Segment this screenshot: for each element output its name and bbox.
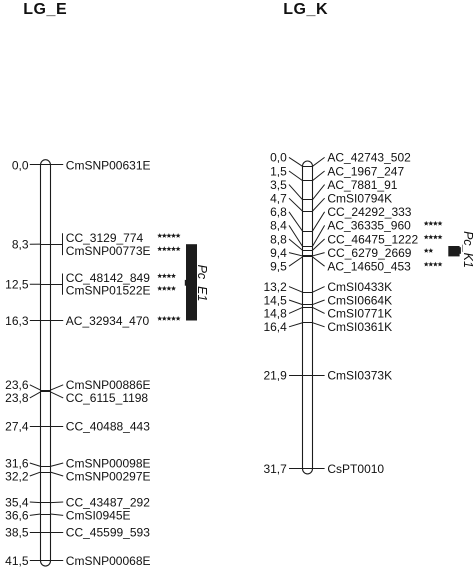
svg-text:23,6: 23,6 xyxy=(5,378,29,392)
svg-text:CmSI0373K: CmSI0373K xyxy=(327,369,392,383)
svg-text:0,0: 0,0 xyxy=(12,158,29,172)
svg-text:31,6: 31,6 xyxy=(5,456,29,470)
LG_E marker connector stem at 8,3 xyxy=(51,244,63,246)
svg-text:CmSI0945E: CmSI0945E xyxy=(66,509,131,523)
LG_K distance connector 14,8 xyxy=(289,307,303,313)
LG_K marker connector AC_1967_247 xyxy=(313,171,325,181)
LG_E distance connector 35,4 xyxy=(30,501,41,504)
LG_E marker connector CmSI0945E xyxy=(51,514,64,515)
LG_E distance connector 0,0 xyxy=(30,164,41,166)
LG_K marker connector AC_7881_91 xyxy=(313,185,325,200)
LG_E tick at 27,4 cM xyxy=(41,426,51,428)
LG_K tick at 1,5 cM xyxy=(303,180,313,182)
svg-text:0,0: 0,0 xyxy=(270,151,287,165)
significance stars CmSNP00773E (5) xyxy=(157,246,180,251)
svg-text:CmSNP00098E: CmSNP00098E xyxy=(66,456,151,470)
significance stars CC_46475_1222 (4) xyxy=(424,235,443,240)
LG_E distance connector 16,3 xyxy=(30,320,41,322)
LG_K tick at 9,5 cM xyxy=(303,256,313,258)
svg-text:27,4: 27,4 xyxy=(5,420,29,434)
svg-text:CC_6115_1198: CC_6115_1198 xyxy=(66,391,149,405)
chromosome bar LG_K xyxy=(303,161,313,474)
LG_E distance connector 36,6 xyxy=(30,514,41,515)
significance stars CC_3129_774 (5) xyxy=(157,233,180,238)
svg-text:CmSI0433K: CmSI0433K xyxy=(327,280,392,294)
LG_E distance connector 41,5 xyxy=(30,560,41,562)
svg-text:CC_3129_774: CC_3129_774 xyxy=(66,231,144,245)
LG_E distance connector 38,5 xyxy=(30,532,41,534)
svg-text:8,3: 8,3 xyxy=(12,238,29,252)
LG_E distance connector 32,2 xyxy=(30,472,41,476)
LG_E marker connector stem at 12,5 xyxy=(51,284,63,286)
svg-text:CsPT0010: CsPT0010 xyxy=(327,462,384,476)
svg-text:CC_43487_292: CC_43487_292 xyxy=(66,495,150,509)
svg-text:Pc_E1: Pc_E1 xyxy=(195,265,209,302)
LG_E marker connector CmSNP00098E xyxy=(51,463,64,466)
LG_E distance connector 27,4 xyxy=(30,426,41,428)
svg-text:CmSNP00068E: CmSNP00068E xyxy=(66,554,151,568)
svg-text:13,2: 13,2 xyxy=(263,280,287,294)
significance stars CC_48142_849 (4) xyxy=(157,273,176,278)
LG_K distance connector 8,4 xyxy=(289,225,303,246)
svg-text:CC_40488_443: CC_40488_443 xyxy=(66,420,150,434)
svg-text:9,4: 9,4 xyxy=(270,246,287,260)
LG_K marker connector CC_6279_2669 xyxy=(313,253,325,256)
LG_E tick at 16,3 cM xyxy=(41,320,51,322)
svg-text:9,5: 9,5 xyxy=(270,260,287,274)
LG_E marker connector CmSNP00297E xyxy=(51,472,64,476)
svg-text:16,4: 16,4 xyxy=(263,320,287,334)
svg-text:31,7: 31,7 xyxy=(263,462,287,476)
svg-text:CmSNP00773E: CmSNP00773E xyxy=(66,244,151,258)
svg-text:23,8: 23,8 xyxy=(5,391,29,405)
LG_E distance connector 31,6 xyxy=(30,463,41,466)
svg-text:12,5: 12,5 xyxy=(5,278,29,292)
LG_E marker connector CmSNP00886E xyxy=(51,385,64,390)
LG_K tick at 21,9 cM xyxy=(303,375,313,377)
LG_K distance connector 1,5 xyxy=(289,171,303,181)
LG_E marker connector CC_43487_292 xyxy=(51,501,64,504)
LG_K distance connector 14,5 xyxy=(289,300,303,305)
LG_K distance connector 9,5 xyxy=(289,257,303,266)
svg-text:AC_7881_91: AC_7881_91 xyxy=(327,178,397,192)
LG_E distance connector 23,8 xyxy=(30,392,41,398)
LG_E marker connector AC_32934_470 xyxy=(51,320,64,322)
svg-text:1,5: 1,5 xyxy=(270,164,287,178)
LG_E tick at 32,2 cM xyxy=(41,472,51,474)
QTL whisker Pc_K1 xyxy=(459,247,461,254)
LG_K tick at 9,4 cM xyxy=(303,255,313,257)
svg-text:21,9: 21,9 xyxy=(263,369,287,383)
LG_E tick at 35,4 cM xyxy=(41,502,51,504)
svg-text:CC_6279_2669: CC_6279_2669 xyxy=(327,246,411,260)
LG_E tick at 38,5 cM xyxy=(41,532,51,534)
LG_E marker connector CC_45599_593 xyxy=(51,532,64,534)
LG_K marker connector CmSI0361K xyxy=(313,323,325,327)
LG_E marker connector CmSNP00068E xyxy=(51,560,64,562)
svg-text:CC_45599_593: CC_45599_593 xyxy=(66,526,150,540)
svg-text:LG_E: LG_E xyxy=(23,1,67,18)
svg-text:35,4: 35,4 xyxy=(5,495,29,509)
svg-text:8,4: 8,4 xyxy=(270,219,287,233)
svg-text:CmSNP00631E: CmSNP00631E xyxy=(66,158,151,172)
LG_E tick at 31,6 cM xyxy=(41,466,51,468)
LG_K distance connector 4,7 xyxy=(289,198,303,211)
LG_E marker connector CmSNP00631E xyxy=(51,164,64,166)
LG_K marker connector CmSI0771K xyxy=(313,307,325,313)
svg-text:6,8: 6,8 xyxy=(270,205,287,219)
svg-text:CmSI0664K: CmSI0664K xyxy=(327,293,392,307)
LG_K marker connector CC_46475_1222 xyxy=(313,239,325,250)
LG_K tick at 14,8 cM xyxy=(303,307,313,309)
significance stars AC_32934_470 (5) xyxy=(157,316,180,321)
LG_K tick at 8,4 cM xyxy=(303,246,313,248)
LG_E distance connector 23,6 xyxy=(30,385,41,390)
LG_E tick at 0,0 cM xyxy=(41,164,51,166)
LG_E tick at 12,5 cM xyxy=(41,284,51,286)
LG_K distance connector 13,2 xyxy=(289,287,303,293)
svg-text:CC_24292_333: CC_24292_333 xyxy=(327,205,411,219)
LG_K marker connector AC_42743_502 xyxy=(313,157,325,166)
significance stars CmSNP01522E (4) xyxy=(157,286,176,291)
LG_K distance connector 9,4 xyxy=(289,253,303,256)
LG_E tick at 23,6 cM xyxy=(41,390,51,392)
svg-text:Pc_K1: Pc_K1 xyxy=(461,231,474,268)
LG_K tick at 0,0 cM xyxy=(303,166,313,168)
significance stars AC_14650_453 (4) xyxy=(424,262,443,267)
chromosome bar LG_E xyxy=(41,160,51,566)
QTL bar Pc_E1 xyxy=(186,244,197,320)
LG_K marker connector AC_36335_960 xyxy=(313,225,325,246)
QTL bar Pc_K1 xyxy=(448,246,459,256)
LG_K marker connector AC_14650_453 xyxy=(313,257,325,266)
svg-text:CmSNP01522E: CmSNP01522E xyxy=(66,284,151,298)
LG_K distance connector 6,8 xyxy=(289,212,303,231)
LG_K tick at 4,7 cM xyxy=(303,211,313,213)
LG_K distance connector 21,9 xyxy=(289,375,303,377)
LG_K distance connector 31,7 xyxy=(289,468,303,470)
significance stars CC_6279_2669 (2) xyxy=(424,248,434,253)
svg-text:14,8: 14,8 xyxy=(263,307,287,321)
LG_K tick at 6,8 cM xyxy=(303,231,313,233)
LG_E tick at 23,8 cM xyxy=(41,391,51,393)
LG_K marker connector CC_24292_333 xyxy=(313,212,325,231)
svg-text:AC_36335_960: AC_36335_960 xyxy=(327,219,411,233)
svg-text:36,6: 36,6 xyxy=(5,509,29,523)
LG_K distance connector 0,0 xyxy=(289,157,303,166)
LG_K tick at 31,7 cM xyxy=(303,468,313,470)
LG_E marker connector bracket at 12,5 xyxy=(62,274,64,295)
svg-text:AC_14650_453: AC_14650_453 xyxy=(327,260,411,274)
svg-text:AC_42743_502: AC_42743_502 xyxy=(327,151,411,165)
svg-text:38,5: 38,5 xyxy=(5,526,29,540)
LG_K distance connector 16,4 xyxy=(289,323,303,327)
LG_K tick at 16,4 cM xyxy=(303,322,313,324)
LG_K tick at 3,5 cM xyxy=(303,199,313,201)
LG_K marker connector CsPT0010 xyxy=(313,468,325,470)
LG_K distance connector 3,5 xyxy=(289,185,303,200)
svg-text:AC_32934_470: AC_32934_470 xyxy=(66,314,150,328)
LG_E tick at 36,6 cM xyxy=(41,514,51,516)
LG_E marker connector bracket at 8,3 xyxy=(62,233,64,255)
LG_E distance connector 8,3 xyxy=(30,243,41,245)
svg-text:CmSI0771K: CmSI0771K xyxy=(327,307,392,321)
LG_E tick at 41,5 cM xyxy=(41,560,51,562)
significance stars AC_36335_960 (4) xyxy=(424,221,443,226)
svg-text:CmSNP00886E: CmSNP00886E xyxy=(66,378,151,392)
LG_K tick at 13,2 cM xyxy=(303,292,313,294)
LG_K marker connector CmSI0373K xyxy=(313,375,325,377)
LG_K marker connector CmSI0433K xyxy=(313,287,325,293)
QTL peak nub Pc_E1 xyxy=(185,280,187,286)
svg-text:CmSNP00297E: CmSNP00297E xyxy=(66,469,151,483)
LG_K distance connector 8,8 xyxy=(289,239,303,250)
svg-text:CmSI0361K: CmSI0361K xyxy=(327,320,392,334)
svg-text:3,5: 3,5 xyxy=(270,178,287,192)
LG_K tick at 14,5 cM xyxy=(303,304,313,306)
svg-text:14,5: 14,5 xyxy=(263,293,287,307)
LG_E tick at 8,3 cM xyxy=(41,244,51,246)
LG_E marker connector CC_6115_1198 xyxy=(51,392,64,398)
svg-text:41,5: 41,5 xyxy=(5,554,29,568)
svg-text:LG_K: LG_K xyxy=(283,1,328,18)
LG_K marker connector CmSI0794K xyxy=(313,198,325,211)
svg-text:CmSI0794K: CmSI0794K xyxy=(327,192,392,206)
LG_E marker connector CC_40488_443 xyxy=(51,426,64,428)
LG_K marker connector CmSI0664K xyxy=(313,300,325,305)
svg-text:CC_46475_1222: CC_46475_1222 xyxy=(327,232,418,246)
svg-text:AC_1967_247: AC_1967_247 xyxy=(327,164,404,178)
svg-text:16,3: 16,3 xyxy=(5,314,29,328)
svg-text:8,8: 8,8 xyxy=(270,232,287,246)
svg-text:32,2: 32,2 xyxy=(5,469,29,483)
LG_K tick at 8,8 cM xyxy=(303,250,313,252)
LG_E distance connector 12,5 xyxy=(30,283,41,285)
svg-text:4,7: 4,7 xyxy=(270,192,287,206)
